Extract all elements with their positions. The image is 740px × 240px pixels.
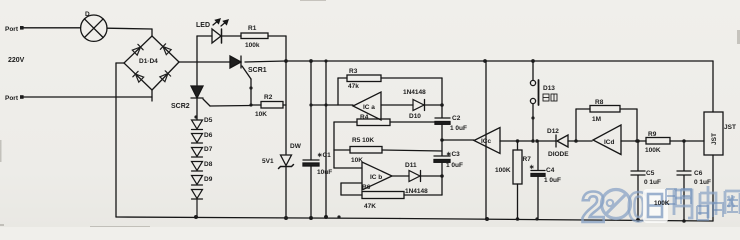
resistor R2 xyxy=(210,102,286,109)
resistor R3 xyxy=(338,75,442,105)
resistor R6 xyxy=(341,176,442,199)
label button (CJK) xyxy=(543,94,557,101)
diode chain D5-D9 xyxy=(192,115,203,219)
capacitor C3 xyxy=(434,141,450,178)
wire lower port to bridge bottom xyxy=(22,90,152,101)
svg-text:R1: R1 xyxy=(248,25,257,32)
pushbutton D13 xyxy=(530,61,538,141)
svg-text:100K: 100K xyxy=(495,167,511,174)
svg-text:DIODE: DIODE xyxy=(548,151,569,158)
wire vertical R1/R2/DW line xyxy=(285,61,287,154)
bridge rectifier D1-D4 xyxy=(124,36,179,90)
svg-text:0 1uF: 0 1uF xyxy=(694,179,711,186)
resistor R9 xyxy=(621,138,704,145)
svg-text:C6: C6 xyxy=(694,170,703,177)
capacitor C4 xyxy=(531,141,545,219)
svg-text:JST: JST xyxy=(711,133,718,145)
svg-text:C2: C2 xyxy=(452,115,461,122)
svg-text:R4: R4 xyxy=(360,114,369,121)
svg-text:220V: 220V xyxy=(8,57,25,64)
SCR1 xyxy=(230,56,251,79)
svg-text:47K: 47K xyxy=(364,203,376,210)
wire bottom rail xyxy=(116,215,713,223)
svg-text:D: D xyxy=(85,11,90,18)
svg-text:D11: D11 xyxy=(405,162,417,169)
watermark xyxy=(581,183,740,232)
svg-text:1M: 1M xyxy=(592,116,601,123)
capacitor C1 line xyxy=(303,61,319,219)
resistor R7 xyxy=(513,141,522,219)
svg-text:R9: R9 xyxy=(648,131,657,138)
wire left vertical of block xyxy=(325,61,327,217)
svg-text:SCR2: SCR2 xyxy=(171,103,190,110)
svg-text:1 0uF: 1 0uF xyxy=(544,177,561,184)
wire SCR1 gate down xyxy=(249,79,252,107)
svg-text:47k: 47k xyxy=(348,83,359,90)
svg-text:DW: DW xyxy=(290,143,302,150)
svg-text:∗C1: ∗C1 xyxy=(317,152,331,159)
svg-text:D9: D9 xyxy=(204,176,213,183)
SCR2 xyxy=(191,86,210,120)
svg-text:D7: D7 xyxy=(204,146,213,153)
svg-text:C4: C4 xyxy=(546,167,555,174)
svg-text:IC a: IC a xyxy=(363,104,375,111)
node Port (upper terminal) xyxy=(20,26,24,30)
svg-text:10K: 10K xyxy=(351,157,363,164)
svg-text:R7: R7 xyxy=(523,156,532,163)
svg-text:1N4148: 1N4148 xyxy=(403,89,426,96)
svg-text:D10: D10 xyxy=(409,113,421,120)
svg-text:1 0uF: 1 0uF xyxy=(446,162,463,169)
svg-text:ICd: ICd xyxy=(604,139,615,146)
wire bridge left corner down to bottom rail xyxy=(116,63,124,217)
zener DW 5V1 xyxy=(279,155,294,219)
svg-text:R3: R3 xyxy=(349,68,358,75)
capacitor C2 xyxy=(435,105,450,142)
wire supply line through ICc xyxy=(485,61,487,219)
svg-text:IC b: IC b xyxy=(370,174,382,181)
wire left inner vertical R4/R5 to ICb input xyxy=(334,122,362,168)
svg-text:C5: C5 xyxy=(646,170,655,177)
op-amp ICa xyxy=(353,92,381,120)
svg-text:R2: R2 xyxy=(264,94,273,101)
svg-text:JST: JST xyxy=(724,124,736,131)
svg-text:R8: R8 xyxy=(595,99,604,106)
svg-text:D5: D5 xyxy=(204,117,213,124)
lamp D xyxy=(81,15,107,41)
op-amp ICb xyxy=(362,162,392,190)
wire top rail SCR1 to JST corner xyxy=(245,59,713,63)
svg-text:10K: 10K xyxy=(255,111,267,118)
relay JST xyxy=(704,61,723,221)
svg-text:LED: LED xyxy=(196,22,210,29)
resistor R8 xyxy=(576,106,639,143)
svg-text:Port: Port xyxy=(5,95,19,102)
resistor R5 xyxy=(334,147,442,154)
wire C2/C3 node to ICc xyxy=(442,139,474,141)
LED xyxy=(197,19,241,43)
node Port (lower terminal) xyxy=(20,95,24,99)
svg-text:D12: D12 xyxy=(547,128,559,135)
op-amp ICd xyxy=(593,125,621,155)
svg-text:D1·D4: D1·D4 xyxy=(139,58,158,65)
svg-text:SCR1: SCR1 xyxy=(248,67,267,74)
svg-text:∗: ∗ xyxy=(529,164,535,171)
svg-text:D13: D13 xyxy=(543,85,555,92)
svg-text:R5 10K: R5 10K xyxy=(352,137,374,144)
wire LED branch vertical to SCR2 anode xyxy=(196,36,198,85)
diode D11 1N4148 xyxy=(392,171,442,182)
svg-text:1 0uF: 1 0uF xyxy=(450,125,467,132)
svg-text:∗C3: ∗C3 xyxy=(446,151,460,158)
wire ICc input xyxy=(474,128,539,154)
wire lamp to bridge top xyxy=(107,28,152,36)
svg-text:100K: 100K xyxy=(645,147,661,154)
svg-text:5V1: 5V1 xyxy=(262,158,274,165)
svg-text:Port: Port xyxy=(5,26,19,33)
resistor R4 xyxy=(334,119,442,126)
diode D12 xyxy=(537,135,592,147)
svg-text:R6: R6 xyxy=(362,184,371,191)
svg-text:D6: D6 xyxy=(204,132,213,139)
wire upper port to lamp xyxy=(23,27,81,29)
capacitor C6 xyxy=(677,141,691,221)
wire bridge right to SCR1 xyxy=(179,61,230,63)
svg-text:10uF: 10uF xyxy=(317,169,332,176)
svg-text:100k: 100k xyxy=(245,42,260,49)
diode D10 1N4148 xyxy=(381,100,444,111)
svg-text:1N4148: 1N4148 xyxy=(405,188,428,195)
svg-text:D8: D8 xyxy=(204,161,213,168)
svg-text:ICc: ICc xyxy=(481,138,492,145)
capacitor C5 xyxy=(631,141,645,220)
svg-text:100K: 100K xyxy=(654,200,670,207)
resistor R1 xyxy=(241,33,286,61)
wire ICa output to C1/vert lines xyxy=(309,103,353,106)
